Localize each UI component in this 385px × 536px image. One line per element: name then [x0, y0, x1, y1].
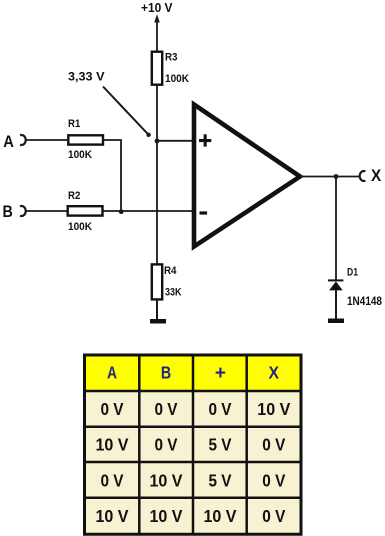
svg-text:D1: D1: [347, 267, 358, 279]
wire R4 to ground: [156, 300, 158, 320]
wire R3 to R4 (divider): [156, 85, 158, 264]
svg-text:R2: R2: [68, 190, 80, 202]
svg-text:0 V: 0 V: [101, 399, 124, 419]
resistor R2: [68, 206, 103, 215]
+input marking: [199, 134, 211, 146]
svg-text:0 V: 0 V: [155, 399, 178, 419]
svg-text:3,33 V: 3,33 V: [68, 70, 105, 84]
svg-text:+: +: [215, 363, 226, 384]
svg-text:0 V: 0 V: [262, 506, 285, 526]
svg-text:0 V: 0 V: [155, 435, 178, 455]
resistor R1: [68, 135, 103, 144]
svg-text:A: A: [107, 362, 117, 382]
svg-text:5 V: 5 V: [209, 470, 232, 490]
svg-text:A: A: [3, 132, 14, 151]
table body background: [84, 356, 300, 534]
terminal A: [20, 135, 26, 145]
ground (divider): [150, 319, 166, 324]
terminal X: [360, 171, 366, 181]
svg-text:0 V: 0 V: [262, 435, 285, 455]
terminal B: [20, 206, 26, 216]
svg-text:+10 V: +10 V: [141, 1, 173, 15]
svg-text:100K: 100K: [165, 73, 189, 85]
svg-text:R4: R4: [164, 265, 177, 277]
svg-text:10 V: 10 V: [150, 506, 183, 526]
junction dot (output node): [334, 174, 339, 179]
wire output: [300, 176, 360, 178]
diode D1: [328, 280, 343, 290]
table header text: [107, 362, 279, 384]
wire A to R1: [26, 139, 67, 141]
svg-text:0 V: 0 V: [262, 470, 285, 490]
svg-text:10 V: 10 V: [257, 399, 290, 419]
wire node to +input: [157, 140, 194, 142]
svg-text:1N4148: 1N4148: [347, 294, 382, 308]
wire R2 to -input: [104, 210, 195, 212]
wire B to R2: [26, 210, 67, 212]
junction dot (summing node): [119, 209, 124, 214]
svg-text:X: X: [371, 166, 382, 185]
svg-text:5 V: 5 V: [209, 435, 232, 455]
op-amp U1: [194, 105, 300, 247]
pointer line 3,33V to node: [103, 87, 151, 138]
svg-text:10 V: 10 V: [204, 506, 237, 526]
resistor R3: [152, 52, 162, 85]
svg-text:10 V: 10 V: [150, 470, 183, 490]
node divider junction dot: [155, 139, 160, 144]
svg-text:100K: 100K: [68, 221, 92, 233]
svg-text:R3: R3: [165, 52, 178, 64]
table header background: [84, 356, 300, 390]
table grid: [83, 354, 303, 536]
svg-text:0 V: 0 V: [209, 399, 232, 419]
svg-text:10 V: 10 V: [96, 506, 129, 526]
wire output to D1: [335, 177, 337, 281]
svg-text:B: B: [3, 202, 13, 221]
wire R1 to summing junction: [104, 140, 122, 211]
svg-text:100K: 100K: [68, 149, 92, 161]
power arrow: [154, 14, 160, 51]
svg-text:0 V: 0 V: [101, 470, 124, 490]
table body text: [96, 399, 291, 526]
svg-text:B: B: [161, 362, 171, 382]
svg-text:10 V: 10 V: [96, 435, 129, 455]
resistor R4: [152, 264, 162, 299]
wire D1 to ground: [335, 290, 337, 318]
-input marking: [200, 211, 208, 214]
ground (D1): [328, 319, 344, 324]
truth table: [83, 354, 303, 536]
svg-text:33K: 33K: [165, 287, 182, 299]
svg-text:R1: R1: [68, 118, 80, 130]
svg-text:X: X: [269, 362, 280, 382]
